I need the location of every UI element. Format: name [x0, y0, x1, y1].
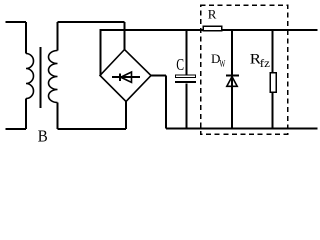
capacitor C bottom plate [175, 81, 196, 83]
wire: negative bottom rail [166, 128, 318, 130]
wire: load resistor bottom lead [271, 93, 273, 129]
wire: positive top rail (right of R) [222, 29, 317, 31]
transformer B primary winding [26, 54, 34, 99]
label R (series resistor) [208, 7, 217, 22]
wire: primary bottom input lead [6, 128, 27, 130]
wire: bridge bottom AC riser [125, 102, 127, 130]
bridge rectifier diamond [100, 50, 151, 102]
wire: primary bottom vertical [25, 99, 27, 130]
wire: bridge minus output vertical [165, 76, 167, 129]
svg-text:B: B [38, 127, 48, 144]
wire: secondary bottom vertical [57, 103, 59, 130]
wire: primary top vertical [25, 22, 27, 54]
label B (transformer) [38, 127, 48, 146]
wire: secondary bottom to bridge AC input [58, 128, 127, 130]
resistor Rfz body [270, 73, 276, 92]
wire: capacitor C bottom lead [185, 83, 187, 128]
zener Dw triangle [227, 77, 237, 87]
wire: diode horizontal inside bridge [112, 76, 140, 78]
zener Dw cathode bar [226, 75, 239, 77]
wire: positive top rail (left of R) [101, 29, 203, 31]
wire: secondary top to bridge AC input [58, 21, 125, 23]
svg-text:R: R [208, 7, 217, 22]
wire: secondary top vertical [57, 22, 59, 51]
wire: bridge minus output horizontal [151, 75, 166, 77]
transformer B secondary winding [49, 51, 58, 103]
dashed regulator box [201, 5, 288, 134]
diode triangle inside bridge [121, 72, 132, 82]
svg-text:C: C [176, 55, 184, 74]
wire: load resistor top lead [271, 29, 273, 73]
wire: bridge top AC riser [124, 22, 126, 50]
capacitor C top plate [176, 75, 196, 78]
diode cathode bar inside bridge [119, 73, 121, 81]
svg-text:fz: fz [260, 56, 270, 70]
transformer B core [40, 47, 42, 108]
wire: bridge plus output riser [100, 29, 102, 76]
resistor R body [203, 26, 222, 30]
wire: primary top input lead [6, 21, 27, 23]
wire: zener top lead [231, 29, 233, 129]
label Dw (zener diode) [211, 51, 225, 70]
wire: capacitor C top lead [185, 29, 187, 74]
label Rfz (load resistor) [250, 52, 270, 70]
svg-text:W: W [220, 59, 226, 70]
label C (capacitor) [176, 55, 184, 74]
